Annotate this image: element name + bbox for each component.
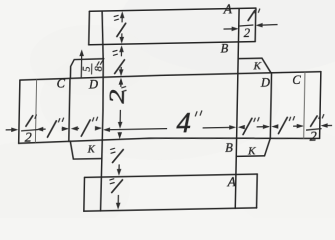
bottom fold line (full row bottom) [19, 135, 320, 144]
svg-text:A: A [223, 1, 233, 16]
strip A right edge [254, 8, 257, 41]
right half fraction inch [319, 115, 324, 119]
C width arrows [39, 128, 46, 130]
A' tab left edge [83, 177, 86, 211]
svg-text:K: K [87, 145, 96, 156]
tab/C fold left [35, 80, 36, 143]
A' arrow [117, 195, 119, 207]
B' rotated 1 [112, 150, 123, 163]
inch tick marks (double primes) [34, 8, 326, 185]
right D 1" [243, 118, 252, 134]
C/D boundary left [69, 78, 70, 141]
K flap bottom-left [70, 141, 102, 160]
svg-text:2: 2 [25, 131, 32, 146]
strip B arrows [120, 47, 122, 56]
left 1/2 fraction [26, 116, 33, 127]
svg-text:C: C [292, 73, 301, 87]
A/B boundary [89, 42, 255, 45]
right C arrows [274, 125, 278, 127]
right 1/2 fraction [311, 116, 317, 126]
A' bottom edge [84, 208, 257, 211]
centre 2in arrows [120, 80, 122, 87]
right C 1" [278, 117, 287, 133]
B' arrow [119, 132, 121, 137]
right spine x=237.2 [235, 8, 239, 208]
strip A top edge [89, 8, 255, 11]
2 inch rotated mark [122, 87, 126, 92]
5/8 rotated fraction [82, 63, 105, 74]
top-right 1/2 fraction [248, 11, 254, 21]
right C inch [289, 117, 294, 121]
strip A rotated inch [114, 15, 118, 20]
svg-text:2: 2 [106, 89, 129, 104]
svg-text:D: D [88, 78, 98, 92]
left tab left edge [19, 80, 20, 143]
D inch [92, 117, 97, 121]
K flap bottom-right [236, 138, 270, 156]
strip A left edge [88, 11, 91, 44]
4 inch arrows [105, 129, 167, 130]
4 inch mark [195, 111, 201, 116]
svg-text:A: A [227, 174, 237, 189]
right tab right edge [320, 72, 321, 139]
thin fold lines [35, 72, 305, 144]
svg-text:K: K [252, 60, 261, 72]
svg-text:4: 4 [176, 108, 191, 139]
right D inch [254, 118, 259, 122]
5/8 flap inch ticks [97, 61, 102, 65]
A' tab right edge [256, 174, 259, 208]
A' rotated 1 [112, 180, 123, 193]
strip B rotated 1 [115, 60, 125, 74]
B'/A' boundary [85, 174, 258, 177]
left spine x=102.8 [98, 11, 105, 211]
far-left arrow [6, 129, 17, 131]
right D arrows [240, 126, 243, 128]
left half fraction inch [35, 115, 36, 118]
strip B rotated inch [113, 50, 117, 55]
strip A rotated 1 [117, 23, 126, 36]
svg-text:8: 8 [94, 65, 105, 71]
K flap top-right [238, 58, 271, 74]
5/8 flap top-left [70, 59, 103, 79]
D 1" [81, 120, 90, 136]
D/C boundary right [270, 73, 271, 139]
strip A arrows [121, 13, 123, 22]
D width arrows [73, 127, 79, 129]
svg-text:2: 2 [310, 129, 317, 144]
far-right arrow [323, 124, 333, 126]
svg-text:B: B [225, 141, 233, 155]
top-right half-inch tab arrows [223, 23, 277, 32]
B' rotated inch [111, 148, 115, 153]
A' rotated inch [110, 179, 114, 184]
svg-text:2: 2 [244, 26, 251, 40]
C inch [58, 118, 63, 122]
5/8 flap up arrow [79, 49, 84, 78]
C 1" [48, 121, 57, 137]
C/tab fold right [304, 72, 305, 139]
top-right tab inch [255, 9, 260, 13]
svg-text:B: B [220, 42, 228, 56]
top fold line (full row top) [20, 72, 321, 80]
svg-text:D: D [260, 76, 270, 90]
svg-text:K: K [247, 145, 256, 157]
svg-text:C: C [57, 77, 66, 91]
